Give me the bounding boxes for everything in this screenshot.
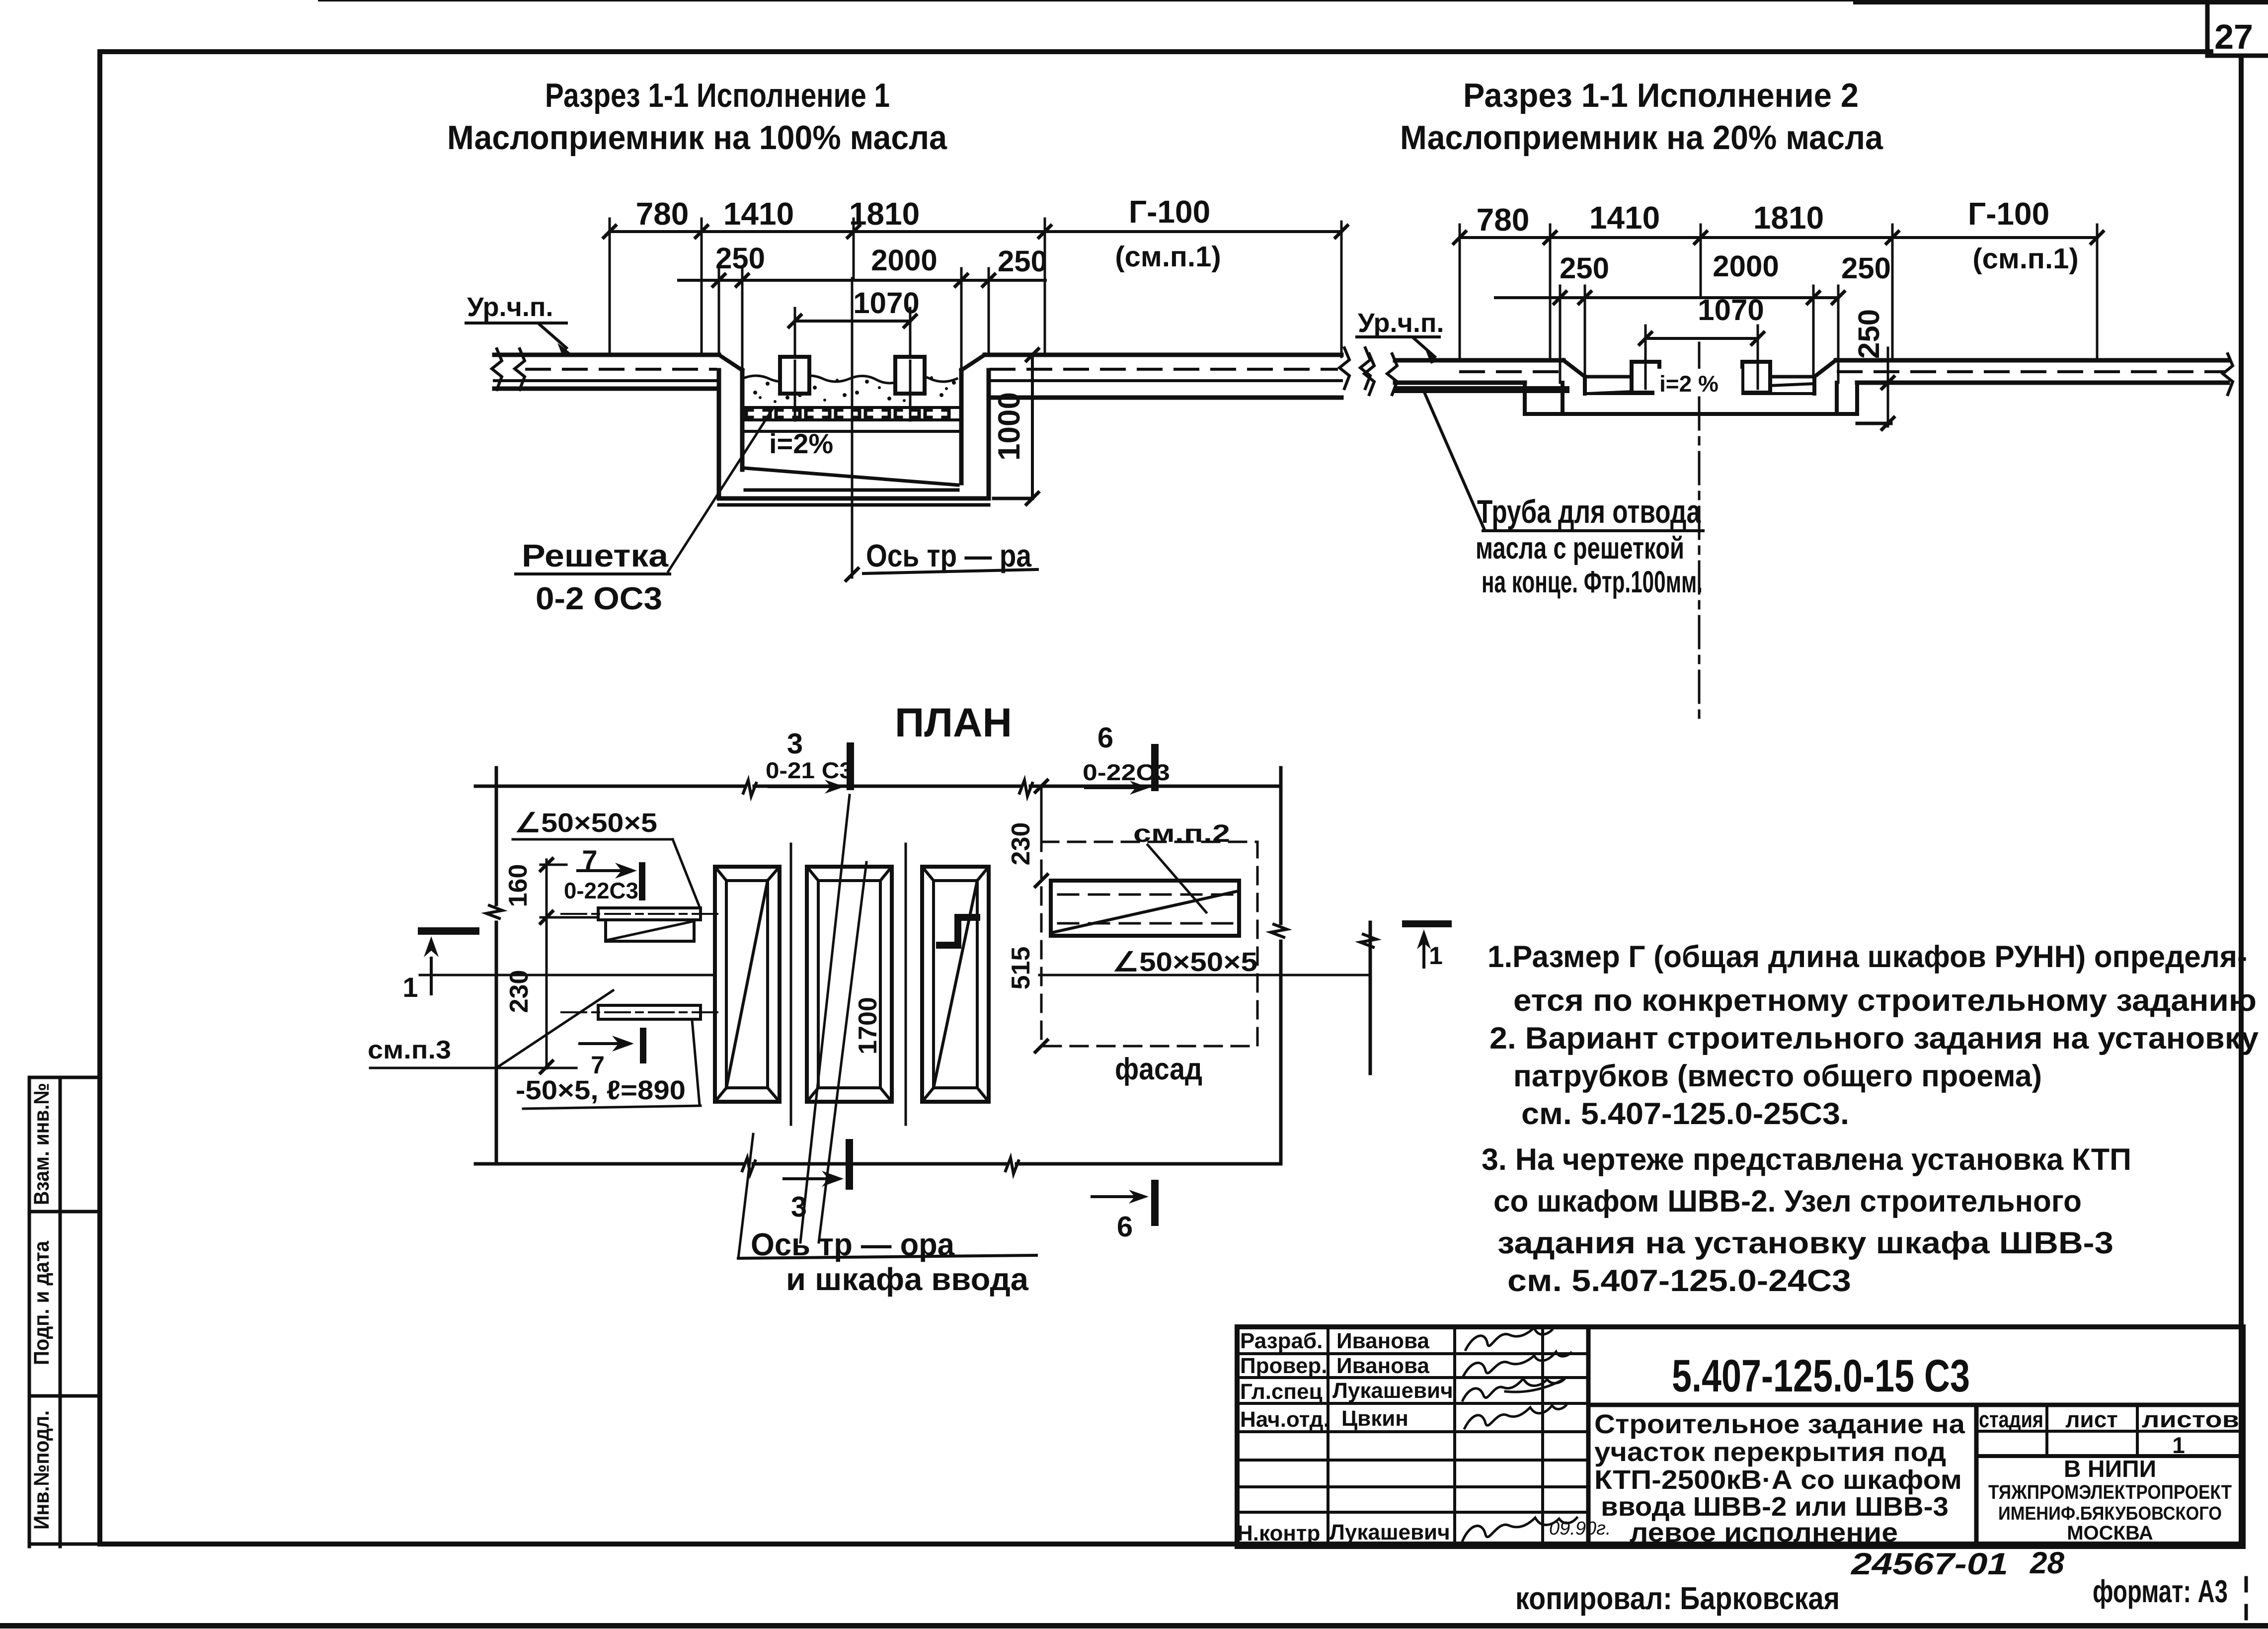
svg-text:28: 28 (2030, 1546, 2064, 1580)
svg-text:Г-100: Г-100 (1968, 196, 2049, 232)
svg-text:2. Вариант строительного задан: 2. Вариант строительного задания на уста… (1489, 1021, 2259, 1056)
svg-text:Подп. и дата: Подп. и дата (30, 1240, 54, 1365)
svg-text:ввода ШВВ-2 или ШВВ-3: ввода ШВВ-2 или ШВВ-3 (1601, 1492, 1949, 1522)
svg-text:250: 250 (1852, 309, 1885, 359)
svg-text:копировал: Барковская: копировал: Барковская (1515, 1580, 1840, 1616)
svg-text:Цвкин: Цвкин (1341, 1406, 1408, 1431)
svg-text:2000: 2000 (871, 244, 937, 277)
svg-text:Лукашевич: Лукашевич (1330, 1520, 1450, 1545)
svg-text:Ось тр — ора: Ось тр — ора (751, 1226, 954, 1262)
svg-text:3. На чертеже представлена уст: 3. На чертеже представлена установка КТП (1482, 1142, 2131, 1177)
svg-text:(см.п.1): (см.п.1) (1115, 241, 1221, 273)
svg-text:см. 5.407-125.0-24С3: см. 5.407-125.0-24С3 (1507, 1264, 1851, 1298)
svg-text:515: 515 (1007, 947, 1035, 990)
svg-text:1.Размер Г (общая длина шкафов: 1.Размер Г (общая длина шкафов РУНН) опр… (1487, 940, 2247, 974)
svg-text:1: 1 (2172, 1432, 2185, 1458)
svg-text:7: 7 (582, 844, 597, 876)
svg-text:см.п.2: см.п.2 (1133, 819, 1230, 847)
svg-text:1410: 1410 (1589, 200, 1660, 236)
svg-text:на конце. Фтр.100мм.: на конце. Фтр.100мм. (1482, 565, 1703, 599)
svg-text:Н.контр: Н.контр (1237, 1521, 1320, 1546)
svg-text:Взам. инв.№: Взам. инв.№ (30, 1083, 54, 1205)
svg-text:Лукашевич: Лукашевич (1332, 1379, 1453, 1403)
svg-text:0-2 ОС3: 0-2 ОС3 (536, 580, 662, 616)
svg-text:В НИПИ: В НИПИ (2064, 1456, 2156, 1482)
svg-text:1410: 1410 (723, 196, 794, 232)
svg-text:5.407-125.0-15 С3: 5.407-125.0-15 С3 (1672, 1351, 1970, 1401)
svg-text:лист: лист (2065, 1406, 2118, 1432)
svg-text:Инв.№подл.: Инв.№подл. (30, 1410, 54, 1530)
svg-text:0-22С3: 0-22С3 (564, 878, 638, 903)
svg-text:фасад: фасад (1115, 1052, 1202, 1086)
svg-text:780: 780 (636, 196, 689, 232)
svg-text:250: 250 (1560, 251, 1609, 285)
svg-text:Труба для отвода: Труба для отвода (1477, 493, 1701, 530)
svg-text:250: 250 (1841, 251, 1891, 285)
svg-text:160: 160 (504, 864, 533, 907)
svg-text:780: 780 (1477, 202, 1530, 238)
svg-text:ется по конкретному строительн: ется по конкретному строительному задани… (1513, 983, 2257, 1018)
svg-text:Маслоприемник на 100% масла: Маслоприемник на 100% масла (447, 119, 947, 157)
svg-text:1070: 1070 (1698, 293, 1764, 326)
svg-text:230: 230 (1007, 822, 1035, 866)
svg-text:27: 27 (2214, 17, 2253, 56)
svg-text:1810: 1810 (1753, 200, 1824, 236)
svg-text:патрубков (вместо общего проем: патрубков (вместо общего проема) (1513, 1059, 2042, 1093)
svg-text:Разрез 1-1 Исполнение 1: Разрез 1-1 Исполнение 1 (545, 77, 890, 114)
svg-text:6: 6 (1097, 722, 1113, 754)
svg-text:3: 3 (791, 1191, 807, 1223)
svg-text:Ур.ч.п.: Ур.ч.п. (1358, 308, 1444, 338)
svg-text:6: 6 (1117, 1211, 1133, 1243)
svg-text:Нач.отд.: Нач.отд. (1240, 1407, 1330, 1432)
svg-text:Решетка: Решетка (522, 538, 668, 573)
svg-text:Г-100: Г-100 (1129, 194, 1210, 230)
svg-text:Провер.: Провер. (1240, 1354, 1327, 1378)
svg-text:1: 1 (402, 972, 418, 1003)
svg-text:стадия: стадия (1979, 1406, 2043, 1432)
svg-text:Разрез 1-1 Исполнение 2: Разрез 1-1 Исполнение 2 (1463, 77, 1859, 114)
svg-text:1700: 1700 (854, 997, 882, 1055)
svg-text:ТЯЖПРОМЭЛЕКТРОПРОЕКТ: ТЯЖПРОМЭЛЕКТРОПРОЕКТ (1988, 1481, 2232, 1503)
svg-text:2000: 2000 (1713, 249, 1779, 283)
svg-text:7: 7 (591, 1051, 605, 1079)
svg-text:3: 3 (787, 728, 803, 760)
svg-text:МОСКВА: МОСКВА (2067, 1522, 2153, 1544)
svg-text:Маслоприемник на 20% масла: Маслоприемник на 20% масла (1400, 119, 1883, 157)
svg-text:-50×5, ℓ=890: -50×5, ℓ=890 (516, 1075, 686, 1105)
svg-text:1: 1 (1429, 942, 1443, 970)
svg-text:Гл.спец: Гл.спец (1240, 1380, 1323, 1404)
svg-text:формат: А3: формат: А3 (2093, 1573, 2228, 1609)
svg-text:i=2 %: i=2 % (1659, 371, 1719, 397)
svg-text:и шкафа ввода: и шкафа ввода (786, 1261, 1028, 1297)
svg-text:250: 250 (998, 244, 1047, 278)
svg-text:24567-01: 24567-01 (1851, 1547, 2008, 1581)
svg-text:со шкафом ШВВ-2. Узел строител: со шкафом ШВВ-2. Узел строительного (1493, 1184, 2082, 1219)
svg-text:ИМЕНИФ.БЯКУБОВСКОГО: ИМЕНИФ.БЯКУБОВСКОГО (1998, 1503, 2222, 1524)
svg-text:Строительное задание на: Строительное задание на (1594, 1409, 1965, 1439)
svg-text:0-21 С3: 0-21 С3 (766, 757, 853, 783)
svg-text:левое исполнение: левое исполнение (1630, 1518, 1898, 1548)
svg-text:(см.п.1): (см.п.1) (1972, 243, 2078, 275)
svg-text:230: 230 (505, 970, 534, 1013)
svg-text:1000: 1000 (992, 392, 1026, 461)
svg-text:Иванова: Иванова (1336, 1329, 1429, 1353)
svg-text:задания на установку шкафа ШВВ: задания на установку шкафа ШВВ-3 (1497, 1226, 2113, 1260)
svg-text:участок перекрытия под: участок перекрытия под (1594, 1437, 1946, 1467)
svg-text:Ось тр — ра: Ось тр — ра (866, 538, 1031, 573)
svg-text:листов: листов (2142, 1406, 2239, 1432)
svg-text:масла с решеткой: масла с решеткой (1476, 531, 1684, 566)
svg-text:Разраб.: Разраб. (1240, 1329, 1323, 1353)
svg-text:∠50×50×5: ∠50×50×5 (1112, 947, 1257, 977)
svg-text:ПЛАН: ПЛАН (895, 700, 1012, 745)
svg-text:см. 5.407-125.0-25С3.: см. 5.407-125.0-25С3. (1521, 1097, 1849, 1131)
svg-text:1810: 1810 (849, 196, 920, 232)
svg-text:∠50×50×5: ∠50×50×5 (515, 808, 657, 838)
svg-text:1070: 1070 (853, 286, 919, 320)
svg-text:Иванова: Иванова (1336, 1354, 1429, 1378)
svg-text:см.п.3: см.п.3 (368, 1036, 451, 1064)
svg-text:i=2%: i=2% (769, 428, 833, 459)
svg-text:250: 250 (715, 242, 765, 275)
svg-text:КТП-2500кВ·А со шкафом: КТП-2500кВ·А со шкафом (1594, 1465, 1962, 1495)
svg-text:0-22С3: 0-22С3 (1083, 759, 1170, 785)
svg-text:Ур.ч.п.: Ур.ч.п. (467, 292, 553, 322)
